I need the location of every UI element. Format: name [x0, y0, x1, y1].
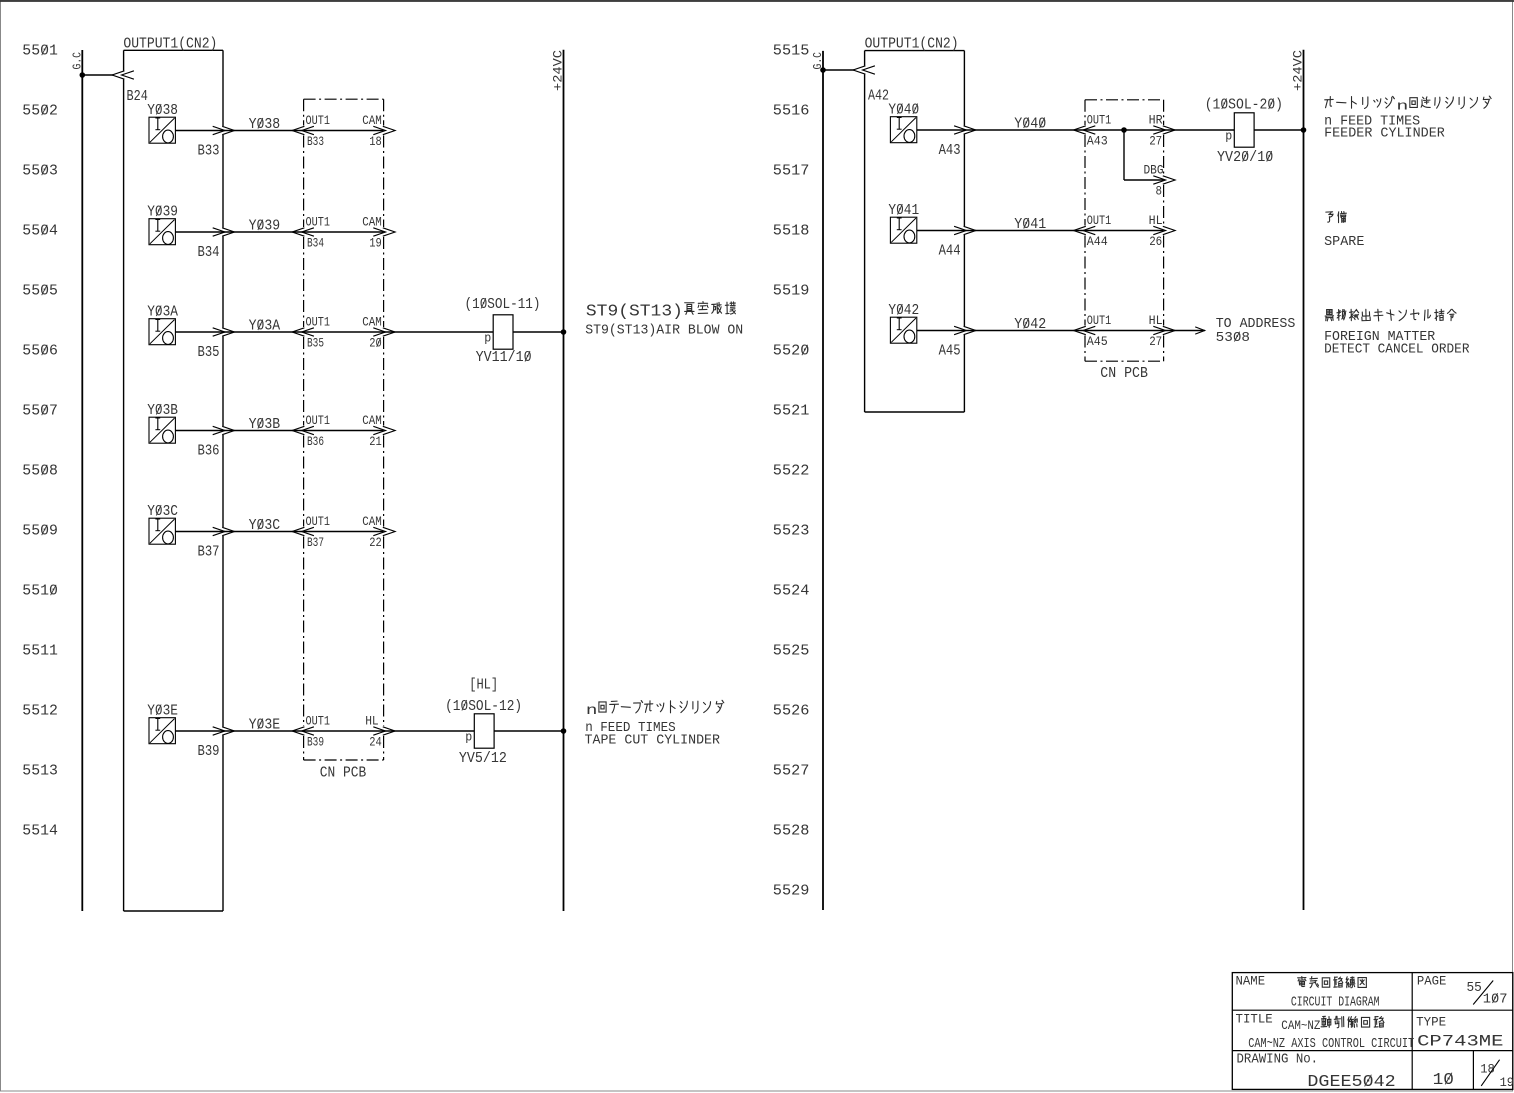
wire solenoid YV5/12 to +24VC rail: [494, 730, 563, 732]
wire inside CN PCB row Y038: [304, 130, 384, 132]
net label Y038: [249, 116, 281, 133]
svg-text:A45: A45: [939, 343, 961, 360]
junction G.C (left): [80, 72, 86, 78]
pin label CAM / 19: [362, 215, 382, 251]
pin label CAM / 21: [362, 413, 382, 449]
connector pin arrow CAM out of CN PCB: [373, 228, 395, 236]
junction Y040/DBG inside CN PCB: [1121, 127, 1127, 133]
svg-text:A43: A43: [939, 142, 961, 159]
label FEEDER CYLINDER: [1324, 126, 1445, 142]
pin label B39: [198, 743, 220, 760]
pin label B33: [198, 143, 220, 160]
svg-text:A42: A42: [868, 88, 889, 105]
label TO ADDRESS 5308: [1216, 316, 1296, 346]
svg-text:HL: HL: [1149, 313, 1163, 328]
svg-text:5524: 5524: [773, 583, 810, 600]
title block TYPE cell: [1416, 1015, 1446, 1030]
svg-text:5308: 5308: [1216, 330, 1250, 346]
label CN PCB (left): [320, 765, 366, 782]
pin label HL / 27: [1149, 313, 1163, 349]
svg-text:DBG: DBG: [1144, 163, 1164, 178]
svg-text:A43: A43: [1087, 134, 1108, 149]
svg-text:5514: 5514: [22, 823, 58, 840]
pin label A43: [939, 142, 961, 159]
svg-text:YV5/12: YV5/12: [459, 750, 507, 767]
connector pin arrow B35 on OUTPUT1 edge: [213, 328, 235, 336]
wire inside CN PCB row Y03A: [304, 331, 384, 333]
svg-text:YV11/10: YV11/10: [476, 349, 532, 366]
value sheet 10: [1433, 1071, 1454, 1090]
wire solenoid YV11/10 to +24VC rail: [513, 331, 564, 333]
svg-text:TAPE CUT CYLINDER: TAPE CUT CYLINDER: [585, 733, 721, 749]
svg-text:p: p: [484, 331, 491, 346]
wire DBG branch horizontal: [1124, 179, 1164, 181]
wire DBG branch vertical: [1123, 130, 1125, 180]
svg-text:OUT1: OUT1: [1087, 113, 1112, 128]
wire Y038 from module to CN PCB: [175, 130, 303, 132]
svg-text:Y042: Y042: [888, 302, 919, 319]
connector pin arrow CAM out of CN PCB: [373, 426, 395, 434]
wire inside CN PCB row Y03C: [304, 531, 384, 533]
svg-text:5525: 5525: [773, 643, 810, 660]
pin label HL / 24: [365, 714, 382, 750]
pin label B36: [198, 443, 220, 460]
title block NAME cell: [1236, 974, 1266, 989]
svg-text:CN PCB: CN PCB: [1100, 365, 1148, 382]
svg-text:PAGE: PAGE: [1417, 974, 1447, 989]
svg-text:OUT1: OUT1: [1087, 213, 1112, 228]
pin label OUT1 / A43: [1087, 113, 1112, 149]
wire inside CN PCB row Y03E: [304, 730, 384, 732]
svg-text:HR: HR: [1149, 113, 1163, 128]
svg-text:ST9(ST13): ST9(ST13): [586, 302, 683, 321]
connector pin arrow OUT1 into CN PCB (right): [1074, 226, 1096, 234]
label spare (JP): [1326, 212, 1347, 223]
power rail +24VC (left): [563, 50, 565, 911]
svg-text:Y041: Y041: [1014, 216, 1046, 233]
svg-text:8: 8: [1156, 184, 1163, 199]
title block TITLE cell: [1236, 1012, 1273, 1027]
connector pin arrow OUT1 into CN PCB: [292, 727, 314, 735]
svg-text:Y03E: Y03E: [147, 703, 178, 720]
svg-text:27: 27: [1149, 334, 1162, 349]
PCB connector box CN PCB (right, dash-dot): [1085, 100, 1164, 361]
pin label OUT1 / A45: [1087, 313, 1112, 349]
value CP743ME: [1417, 1033, 1503, 1051]
connector pin arrow CAM out of CN PCB: [373, 527, 395, 535]
svg-text:B37: B37: [307, 535, 324, 550]
net label Y041: [1014, 216, 1046, 233]
pin label HL / 26: [1149, 213, 1163, 249]
svg-text:Y03B: Y03B: [147, 402, 178, 419]
svg-text:19: 19: [1500, 1075, 1514, 1090]
label n FEED TIMES: [585, 720, 676, 736]
svg-text:5528: 5528: [773, 823, 810, 840]
svg-text:OUT1: OUT1: [306, 113, 331, 128]
label cartridge n-feed cylinder (JP): [1325, 96, 1491, 113]
svg-text:CAM: CAM: [362, 315, 382, 330]
label OUTPUT1(CN2) (left): [123, 36, 217, 53]
net label Y03E: [249, 717, 281, 734]
output module Y042 (I/O symbol): [888, 302, 919, 343]
wire solenoid YV20/10 to +24VC rail: [1254, 129, 1303, 131]
pin label OUT1 / B36: [306, 413, 331, 449]
solenoid YV5/12 (10SOL-12) [HL]: [445, 677, 522, 768]
value CAM~NZ AXIS CONTROL CIRCUIT: [1248, 1036, 1414, 1052]
pin label OUT1 / A44: [1087, 213, 1112, 249]
svg-text:FEEDER CYLINDER: FEEDER CYLINDER: [1324, 126, 1445, 142]
svg-text:24: 24: [369, 735, 382, 750]
svg-text:+24VC: +24VC: [551, 50, 566, 91]
label CN PCB (right): [1100, 365, 1148, 382]
value DGEE5042: [1307, 1073, 1395, 1092]
svg-text:Y03B: Y03B: [249, 416, 281, 433]
label +24VC (left): [551, 50, 566, 91]
junction G.C (right): [820, 67, 826, 73]
svg-text:(10SOL-12): (10SOL-12): [445, 698, 522, 715]
label G.C (left): [71, 52, 85, 70]
svg-text:B33: B33: [307, 134, 324, 149]
svg-text:5516: 5516: [773, 103, 810, 120]
label TAPE CUT CYLINDER: [585, 733, 721, 749]
wire Y03B from module to CN PCB: [175, 430, 303, 432]
svg-text:5503: 5503: [22, 163, 58, 180]
svg-text:Y03E: Y03E: [249, 717, 281, 734]
svg-text:OUT1: OUT1: [306, 714, 331, 729]
svg-text:22: 22: [369, 535, 382, 550]
row line numbers 5515-5529 (right): [773, 43, 810, 900]
pin label CAM / 22: [362, 514, 382, 550]
output module Y03C (I/O symbol): [147, 503, 178, 544]
label n-times tape cut cylinder (JP): [586, 700, 724, 719]
svg-text:B24: B24: [127, 88, 148, 105]
value CAM~NZ軸制御回路 (JP): [1281, 1018, 1320, 1033]
pin label A45: [939, 343, 961, 360]
svg-text:B34: B34: [307, 236, 324, 251]
svg-text:B36: B36: [198, 443, 220, 460]
svg-text:CAM~NZ AXIS CONTROL CIRCUIT: CAM~NZ AXIS CONTROL CIRCUIT: [1248, 1036, 1414, 1052]
svg-text:5529: 5529: [773, 883, 810, 900]
svg-text:5508: 5508: [22, 463, 58, 480]
power rail +24VC (right): [1303, 50, 1305, 910]
wire Y03C from module to CN PCB: [175, 531, 303, 533]
svg-text:5515: 5515: [773, 43, 810, 60]
svg-text:n: n: [1396, 98, 1408, 113]
svg-text:5517: 5517: [773, 163, 810, 180]
pin label CAM / 20: [362, 315, 382, 351]
svg-text:TITLE: TITLE: [1236, 1012, 1273, 1027]
row line numbers 5501-5514 (left): [22, 43, 58, 840]
svg-text:CAM: CAM: [362, 514, 382, 529]
connector pin arrow B34 on OUTPUT1 edge: [213, 228, 235, 236]
svg-text:5511: 5511: [22, 643, 58, 660]
wire Y042 from module to CN PCB: [917, 330, 1085, 332]
title block frame: [1232, 973, 1513, 1090]
label foreign matter detect cancel (JP): [1325, 309, 1456, 321]
svg-text:+24VC: +24VC: [1291, 50, 1306, 91]
svg-text:5512: 5512: [22, 703, 58, 720]
output module Y03B (I/O symbol): [147, 402, 178, 443]
svg-text:CIRCUIT DIAGRAM: CIRCUIT DIAGRAM: [1291, 994, 1380, 1010]
connector pin arrow B24 entry (left): [112, 71, 134, 79]
svg-text:5526: 5526: [773, 703, 810, 720]
svg-text:5502: 5502: [22, 103, 58, 120]
svg-text:B35: B35: [198, 344, 220, 361]
svg-text:20: 20: [369, 336, 382, 351]
svg-text:5521: 5521: [773, 403, 810, 420]
net G.C rail (left): [81, 50, 83, 911]
pin label OUT1 / B35: [306, 315, 331, 351]
svg-text:B33: B33: [198, 143, 220, 160]
svg-text:Y03A: Y03A: [249, 318, 281, 335]
label ST9(ST13)AIR BLOW ON: [585, 323, 743, 339]
pin label OUT1 / B33: [306, 113, 331, 149]
svg-text:HL: HL: [365, 714, 379, 729]
pin label OUT1 / B39: [306, 714, 331, 750]
connector pin arrow DBG out of CN PCB: [1153, 176, 1175, 184]
svg-text:5506: 5506: [22, 343, 58, 360]
wire inside CN PCB row Y03B: [304, 430, 384, 432]
net G.C rail (right): [822, 51, 824, 910]
pin label OUT1 / B34: [306, 215, 331, 251]
svg-text:TYPE: TYPE: [1416, 1015, 1446, 1030]
svg-text:OUT1: OUT1: [306, 215, 331, 230]
net label Y039: [249, 218, 281, 235]
svg-text:5518: 5518: [773, 223, 810, 240]
label A42: [868, 88, 889, 105]
svg-text:B39: B39: [198, 743, 220, 760]
connector pin arrow OUT1 into CN PCB: [292, 426, 314, 434]
wire G.C to OUTPUT1 B24 entry: [82, 74, 113, 76]
connector pin arrow OUT1 into CN PCB: [292, 328, 314, 336]
connector pin arrow HL out of CN PCB: [1153, 226, 1175, 234]
svg-text:CAM: CAM: [362, 113, 382, 128]
svg-text:Y03C: Y03C: [147, 503, 178, 520]
svg-text:5501: 5501: [22, 43, 58, 60]
wire Y03A CAM20 to solenoid YV11/10: [384, 331, 494, 333]
svg-text:5522: 5522: [773, 463, 810, 480]
svg-text:DRAWING No.: DRAWING No.: [1237, 1052, 1319, 1068]
solenoid YV11/10 (10SOL-11): [465, 296, 541, 366]
pin label HR / 27: [1149, 113, 1163, 149]
connector pin arrow OUT1 into CN PCB (right): [1074, 126, 1096, 134]
svg-text:21: 21: [369, 434, 382, 449]
wire G.C to OUTPUT1 A42 entry: [823, 69, 854, 71]
output module Y038 (I/O symbol): [147, 102, 178, 143]
PCB connector box CN PCB (left, dash-dot): [304, 99, 384, 760]
svg-text:19: 19: [369, 236, 382, 251]
connector pin arrow OUT1 into CN PCB: [292, 126, 314, 134]
pin label B34: [198, 244, 220, 261]
connector OUTPUT1(CN2) box (right): [865, 51, 965, 412]
junction on +24VC (left, Y03A row): [561, 329, 567, 335]
pin label B35: [198, 344, 220, 361]
label n FEED TIMES (right): [1324, 114, 1420, 130]
svg-text:B36: B36: [307, 434, 324, 449]
svg-text:HL: HL: [1149, 213, 1163, 228]
svg-text:5513: 5513: [22, 763, 58, 780]
svg-text:B34: B34: [198, 244, 220, 261]
value page 55/107: [1467, 980, 1508, 1008]
svg-text:DGEE5042: DGEE5042: [1307, 1073, 1395, 1092]
arrowhead TO ADDRESS 5308: [1195, 327, 1205, 334]
wire inside CN PCB row Y041: [1085, 230, 1164, 232]
svg-text:OUT1: OUT1: [306, 514, 331, 529]
output module Y039 (I/O symbol): [147, 204, 178, 245]
output module Y041 (I/O symbol): [888, 202, 919, 243]
net label Y03C: [249, 517, 281, 534]
svg-text:CAM: CAM: [362, 413, 382, 428]
wire Y042 HL27 to address arrow: [1164, 330, 1205, 332]
connector pin arrow OUT1 into CN PCB: [292, 527, 314, 535]
connector pin arrow HR out of CN PCB: [1153, 126, 1175, 134]
svg-text:G.C: G.C: [71, 52, 85, 70]
connector pin arrow CAM out of CN PCB: [373, 126, 395, 134]
svg-text:55: 55: [1467, 980, 1482, 996]
svg-text:B37: B37: [198, 544, 220, 561]
svg-text:5504: 5504: [22, 223, 58, 240]
pin label B37: [198, 544, 220, 561]
svg-text:Y042: Y042: [1014, 316, 1046, 333]
svg-text:Y038: Y038: [147, 102, 178, 119]
connector pin arrow B33 on OUTPUT1 edge: [213, 126, 235, 134]
connector pin arrow CAM out of CN PCB: [373, 328, 395, 336]
svg-text:Y039: Y039: [249, 218, 281, 235]
svg-text:p: p: [1225, 129, 1232, 144]
wire Y03E from module to CN PCB: [175, 730, 303, 732]
wire Y03E HL24 to solenoid YV5/12: [384, 730, 475, 732]
svg-text:A44: A44: [1087, 234, 1108, 249]
pin label DBG / 8: [1144, 163, 1164, 199]
svg-text:(10SOL-11): (10SOL-11): [465, 296, 541, 313]
connector pin arrow A45 on OUTPUT1 edge: [954, 326, 976, 334]
solenoid YV20/10 (10SOL-20): [1205, 97, 1283, 167]
wire Y039 from module to CN PCB: [175, 231, 303, 233]
label FOREIGN MATTER: [1324, 329, 1436, 345]
svg-text:OUT1: OUT1: [306, 315, 331, 330]
connector pin arrow HL out of CN PCB: [373, 727, 395, 735]
net label Y03A: [249, 318, 281, 335]
output module Y03E (I/O symbol): [147, 703, 178, 744]
svg-text:5509: 5509: [22, 523, 58, 540]
svg-text:OUTPUT1(CN2): OUTPUT1(CN2): [865, 36, 959, 53]
svg-text:SPARE: SPARE: [1324, 234, 1364, 250]
wire Y03A from module to CN PCB: [175, 331, 303, 333]
connector pin arrow B37 on OUTPUT1 edge: [213, 527, 235, 535]
output module Y040 (I/O symbol): [888, 102, 919, 143]
label SPARE: [1324, 234, 1364, 250]
junction on +24VC (left, Y03E row): [561, 728, 567, 734]
value CIRCUIT DIAGRAM: [1291, 994, 1380, 1010]
svg-text:Y039: Y039: [147, 204, 178, 221]
svg-text:ST9(ST13)AIR BLOW ON: ST9(ST13)AIR BLOW ON: [585, 323, 743, 339]
net label Y042: [1014, 316, 1046, 333]
wire inside CN PCB row Y040: [1085, 129, 1164, 131]
svg-text:CAM: CAM: [362, 215, 382, 230]
label +24VC (right): [1291, 50, 1306, 91]
connector pin arrow B39 on OUTPUT1 edge: [213, 727, 235, 735]
pin label CAM / 18: [362, 113, 382, 149]
svg-text:p: p: [465, 730, 472, 745]
svg-text:26: 26: [1149, 234, 1162, 249]
svg-text:5523: 5523: [773, 523, 810, 540]
svg-text:Y041: Y041: [888, 202, 919, 219]
svg-text:5519: 5519: [773, 283, 810, 300]
connector pin arrow B36 on OUTPUT1 edge: [213, 426, 235, 434]
net label Y03B: [249, 416, 281, 433]
value sheet 18/19: [1480, 1060, 1514, 1090]
svg-text:CN PCB: CN PCB: [320, 765, 366, 782]
connector pin arrow HL out of CN PCB: [1153, 326, 1175, 334]
svg-text:OUTPUT1(CN2): OUTPUT1(CN2): [123, 36, 217, 53]
wire Y041 from module to CN PCB: [917, 230, 1085, 232]
svg-text:5507: 5507: [22, 403, 58, 420]
wire inside CN PCB row Y039: [304, 231, 384, 233]
svg-text:OUT1: OUT1: [1087, 313, 1112, 328]
wire HR27 to solenoid YV20/10: [1164, 129, 1235, 131]
svg-text:CAM~NZ: CAM~NZ: [1281, 1018, 1320, 1033]
label OUTPUT1(CN2) (right): [865, 36, 959, 53]
svg-text:107: 107: [1483, 992, 1508, 1008]
junction on +24VC (right): [1301, 127, 1307, 133]
svg-text:n: n: [586, 704, 598, 719]
pin label OUT1 / B37: [306, 514, 331, 550]
svg-text:B35: B35: [307, 336, 324, 351]
connector pin arrow A42 entry (right): [853, 66, 875, 74]
svg-text:5505: 5505: [22, 283, 58, 300]
svg-text:OUT1: OUT1: [306, 413, 331, 428]
pin label A44: [939, 243, 961, 260]
svg-text:A44: A44: [939, 243, 961, 260]
svg-text:A45: A45: [1087, 334, 1108, 349]
svg-text:CP743ME: CP743ME: [1417, 1033, 1503, 1051]
svg-text:G.C: G.C: [811, 52, 825, 70]
wire Y040 from module to CN PCB: [917, 129, 1085, 131]
connector pin arrow A43 on OUTPUT1 edge: [954, 126, 976, 134]
svg-text:18: 18: [369, 134, 382, 149]
connector pin arrow A44 on OUTPUT1 edge: [954, 226, 976, 234]
label DETECT CANCEL ORDER: [1324, 342, 1470, 358]
connector pin arrow OUT1 into CN PCB: [292, 228, 314, 236]
title block PAGE cell: [1417, 974, 1447, 989]
label ST9(ST13) vacuum break (JP): [586, 302, 683, 321]
svg-text:5527: 5527: [773, 763, 810, 780]
label G.C (right): [811, 52, 825, 70]
wire inside CN PCB row Y042: [1085, 330, 1164, 332]
output module Y03A (I/O symbol): [147, 304, 178, 345]
connector OUTPUT1(CN2) box (left): [124, 50, 223, 911]
title block DRAWING No. cell: [1237, 1052, 1319, 1068]
svg-text:NAME: NAME: [1236, 974, 1266, 989]
net label Y040: [1014, 116, 1046, 133]
svg-text:Y03A: Y03A: [147, 304, 178, 321]
svg-text:Y03C: Y03C: [249, 517, 281, 534]
svg-text:DETECT CANCEL ORDER: DETECT CANCEL ORDER: [1324, 342, 1470, 358]
svg-text:27: 27: [1149, 134, 1162, 149]
svg-text:Y038: Y038: [249, 116, 281, 133]
svg-text:YV20/10: YV20/10: [1217, 149, 1273, 166]
svg-text:[HL]: [HL]: [469, 677, 498, 694]
label B24: [127, 88, 148, 105]
svg-text:(10SOL-20): (10SOL-20): [1205, 97, 1283, 114]
connector pin arrow OUT1 into CN PCB (right): [1074, 326, 1096, 334]
svg-text:B39: B39: [307, 735, 324, 750]
value 電気回路線図 (JP): [1298, 977, 1367, 988]
